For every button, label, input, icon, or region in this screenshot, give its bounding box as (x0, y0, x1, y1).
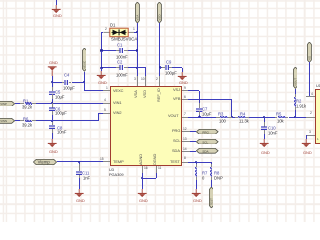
label R3 designator (218, 112, 223, 116)
port PRG (196, 129, 219, 135)
pin number 2 (156, 78, 158, 81)
label R5 value 10k (277, 119, 284, 123)
connector U3 body (315, 89, 320, 143)
resistor R7 0 (196, 162, 197, 164)
label R1 designator (23, 99, 28, 103)
wire VSA column C1-C2 (137, 51, 138, 68)
pin name VSJ (173, 88, 180, 92)
pin number 9 (184, 87, 186, 90)
label C7 value 10uF (202, 112, 211, 116)
wire VOUT to R3 (188, 117, 216, 118)
op-amp U2 PGA309 IC body (110, 86, 181, 166)
wire AGND down to ground (142, 173, 143, 189)
label C8 designator (57, 126, 62, 130)
capacitor C8 10nF (52, 120, 53, 123)
node VEXC/C4 junction (83, 81, 85, 83)
pin name TEST (170, 160, 180, 164)
pin stub VEXC pin 1 (103, 90, 110, 91)
label D1 designator (110, 23, 115, 27)
node C2/VSA 4-way junction (136, 67, 138, 69)
resistor R2 1.91k (295, 89, 296, 94)
pin number 1 of D1 (133, 28, 135, 31)
pin number 15 (100, 158, 104, 161)
svg-text:SDA: SDA (202, 150, 209, 154)
resistor R4 11.3k (232, 117, 235, 118)
label C2 value 100nF (116, 73, 128, 77)
label R8 value DNP (214, 176, 223, 180)
resistor R6 39.2k (15, 120, 20, 121)
ground GND at C1/C2 left node (101, 68, 102, 71)
wire VEXC port down (84, 72, 85, 83)
ground GND at C9 right (182, 68, 183, 73)
label R1 value 39.2k (22, 105, 32, 109)
wire REF column lower (159, 68, 160, 77)
node C7/VOUT junction (198, 116, 200, 118)
label C4 value 100uF (63, 86, 75, 90)
label U2 designator (109, 168, 114, 172)
label R7 designator (202, 171, 207, 175)
port VSD (top) (157, 2, 162, 23)
label R6 value 39.2k (22, 123, 32, 127)
label C7 designator (202, 107, 207, 111)
pin stub connector pin 2 (306, 117, 315, 118)
svg-text:VINN: VINN (0, 119, 7, 123)
pin name AGND rotated (139, 154, 143, 165)
label C1 designator (117, 43, 122, 47)
node R5/R2 junction (294, 116, 296, 118)
resistor R5 10k (264, 117, 275, 118)
wire VSA port column upper (137, 23, 138, 33)
port VEXC (left mid) (82, 48, 87, 71)
wire VSA column D1 to C1 (137, 32, 138, 51)
port VINP (left edge) (0, 101, 15, 107)
label C11 value 1nF (83, 176, 90, 180)
pin stub SDA pin 14 (182, 151, 190, 152)
label R2 designator (296, 99, 301, 103)
port Vtemp (33, 159, 57, 165)
pin stub TEMP pin 15 (103, 161, 110, 162)
pin name SDA (172, 149, 180, 153)
port VOUT (right) (293, 67, 298, 88)
ground GND below AGND/DGND (137, 189, 147, 198)
pin name VSA rotated (134, 90, 138, 98)
resistor R3 100 (216, 117, 220, 118)
label R7 value 0 (202, 176, 204, 180)
svg-text:VSD: VSD (158, 14, 162, 20)
wire D1 pin1 to VSA column (134, 32, 137, 33)
pin number 13 (183, 138, 187, 141)
pin name TEMP (113, 160, 124, 164)
label C5 value 10uF (55, 95, 64, 99)
ground GND below R7 (191, 189, 201, 198)
label C2 designator (117, 60, 122, 64)
node C4 left junction (51, 81, 53, 83)
node C1 right junction (136, 49, 138, 51)
ground GND top-left power rail (56, 0, 57, 5)
pin number 8 (184, 157, 186, 160)
node TEMP/C11 junction (78, 161, 80, 163)
capacitor C5 10uF (52, 87, 53, 91)
svg-text:VOUT: VOUT (293, 78, 297, 86)
pin number 4 connector (311, 93, 313, 96)
pin number 10 (141, 78, 145, 81)
port SCL (196, 139, 219, 145)
ground GND below C10 (259, 139, 269, 148)
pin stub DGND pin 11 (156, 166, 157, 173)
svg-text:Vtemp: Vtemp (38, 160, 51, 165)
label R3 value 100 (219, 119, 226, 123)
node R1/C5/C6 junction (51, 102, 53, 104)
pin number 3 (134, 78, 136, 81)
node AGND/DGND junction (141, 177, 143, 179)
wire left column C1-C2 (101, 51, 102, 68)
capacitor C4 100uF (52, 82, 62, 83)
pin number 2 of D1 (105, 28, 107, 31)
label C4 designator (64, 73, 69, 77)
resistor R8 DNP (211, 162, 212, 164)
pin stub REF_IO pin 2 (159, 76, 160, 86)
pin number 12 (183, 128, 187, 131)
pin stub AGND pin 16 (142, 166, 143, 173)
ground GND below C11 (74, 189, 84, 198)
capacitor C2 100nF (102, 67, 116, 68)
node VFB/R3/R4 junction (231, 116, 233, 118)
port VSA (top) (135, 2, 140, 23)
wire VFB feedback (188, 99, 231, 100)
label D1 value SMBJ5V0CA (111, 37, 137, 42)
resistor R1 39.2k (15, 103, 20, 104)
label R4 value 11.3k (239, 119, 249, 123)
wire REF column (159, 23, 160, 68)
svg-text:VS: VS (308, 56, 312, 60)
wire VSJ to C7 column (188, 90, 199, 91)
pin name VEXC (113, 89, 123, 93)
pin number 5 (104, 109, 106, 112)
ground GND below connector pin 3 (301, 139, 311, 148)
wire R6 step up to VIN2 (98, 113, 99, 121)
label U3 designator (316, 84, 320, 88)
node C2 left junction with ground (100, 67, 102, 69)
label C6 designator (55, 107, 60, 111)
wire TEST row (188, 162, 211, 163)
capacitor C6 100uF (52, 103, 53, 107)
label C9 designator (166, 60, 171, 64)
pin name 1 inside connector (317, 138, 319, 141)
pin name SCL (173, 139, 180, 143)
pin stub connector pin 4 (306, 96, 315, 97)
wire node down to C5 (52, 82, 53, 87)
svg-text:PRG: PRG (202, 130, 209, 134)
label C1 value 100nF (116, 55, 128, 59)
pin number 2 connector (310, 112, 312, 115)
pin stub VOUT pin 7 (182, 117, 189, 118)
pin stub PRG pin 12 (182, 131, 190, 132)
pin name DGND rotated (153, 153, 157, 164)
wire VEXC to IC (84, 90, 103, 91)
pin stub VSD pin 10 (145, 76, 146, 86)
wire port to connector pin 4 (309, 62, 310, 96)
label U2 value PGA309 (109, 173, 123, 177)
pin stub VIN1 pin 4 (103, 103, 110, 104)
node R6/C6/C8 junction (51, 120, 53, 122)
port VINN (left edge) (0, 118, 15, 124)
pin stub VSJ pin 9 (182, 90, 189, 91)
wire D1 pin2 elbow (102, 32, 104, 33)
node D1/VSA junction (136, 31, 138, 33)
node REF/C9 junction (159, 66, 161, 68)
label R5 designator (276, 112, 281, 116)
pin number 4 (104, 99, 106, 102)
capacitor C1 100nF (102, 50, 116, 51)
label C9 value 100uF (165, 71, 177, 75)
pin name REF_IO rotated (157, 88, 161, 102)
svg-text:VINP: VINP (0, 102, 7, 106)
node TEST/R7 junction (195, 161, 197, 163)
ground GND upward at C4/C5 node (49, 61, 58, 65)
label C8 value 10nF (57, 130, 66, 134)
pin stub VIN2 pin 5 (103, 113, 110, 114)
pin number 11 (158, 167, 161, 170)
pin name VFB (173, 97, 180, 101)
label C10 designator (268, 126, 276, 130)
pin number 3 connector (309, 131, 311, 134)
wire DGND to AGND (156, 173, 157, 179)
label R8 designator (214, 171, 219, 175)
node C1 left junction (100, 49, 102, 51)
pin name VIN2 (113, 111, 121, 115)
wire Vtemp to TEMP pin (57, 161, 103, 162)
pin stub VSA pin 3 (137, 76, 138, 86)
node R4/C10/R5 junction (263, 116, 265, 118)
pin number 14 (183, 148, 187, 151)
capacitor C10 10nF (264, 117, 265, 122)
wire to connector pin 2 (295, 117, 306, 118)
pin name PRG (172, 129, 180, 133)
svg-text:VEXC: VEXC (82, 61, 86, 69)
pin stub SCL pin 13 (182, 141, 190, 142)
label C11 designator (82, 171, 89, 175)
svg-text:TEST: TEST (209, 198, 213, 206)
wire elbow C2 node to VSD pin (137, 67, 146, 68)
wire pin 3 to ground (306, 135, 307, 139)
label R6 designator (23, 117, 28, 121)
label R4 designator (240, 112, 245, 116)
capacitor C9 100uF (160, 67, 163, 68)
port VCLAMP (upper right) (307, 42, 312, 62)
label C6 value 100uF (55, 111, 67, 115)
pin number 7 (184, 113, 186, 116)
wire VEXC down to pin row (84, 82, 85, 91)
label R2 value 1.91k (296, 104, 306, 108)
wire VSA column to pin (137, 68, 138, 76)
port TEST (bottom) (209, 187, 214, 208)
pin number 16 (144, 167, 148, 170)
pin name VOUT (168, 114, 179, 118)
svg-text:SCL: SCL (202, 140, 208, 144)
pin stub connector pin 3 (306, 135, 315, 136)
ground GND below C8 (47, 139, 57, 148)
port SDA (196, 148, 219, 154)
pin name VIN1 (113, 101, 121, 105)
label C5 designator (55, 90, 60, 94)
capacitor C7 10uF (199, 103, 200, 108)
capacitor C11 1nF (79, 162, 80, 165)
pin name VSD rotated (143, 90, 147, 98)
pin stub TEST pin 8 (182, 162, 189, 163)
diode D1 TVS SMBJ5V0CA (101, 27, 139, 38)
pin number 6 (184, 96, 186, 99)
pin number 1 (106, 87, 108, 90)
label C10 value 10nF (268, 131, 277, 135)
pin stub VFB pin 6 (182, 99, 189, 100)
svg-text:VSA: VSA (135, 14, 139, 20)
